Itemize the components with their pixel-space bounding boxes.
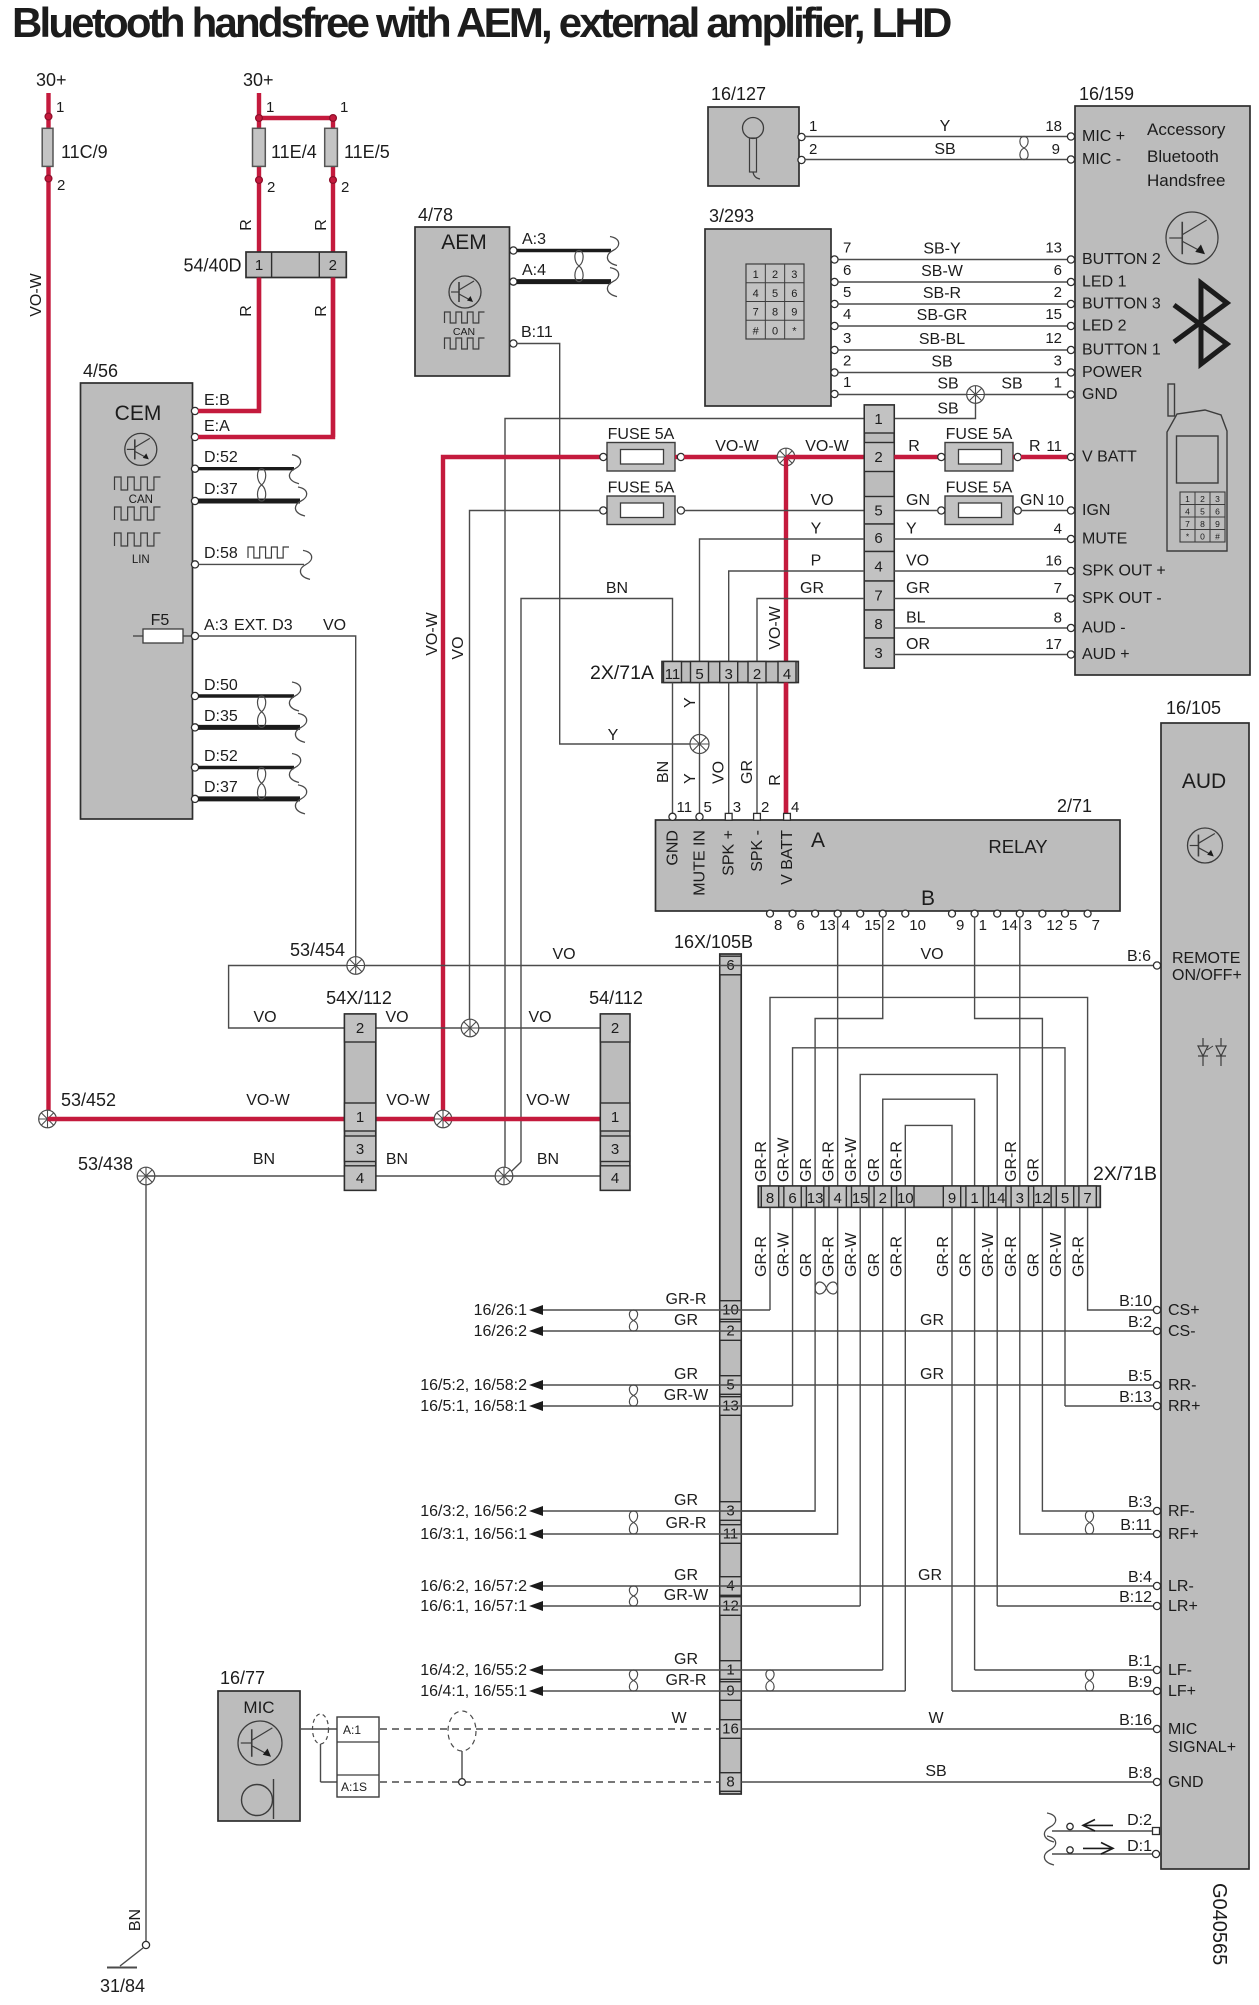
svg-text:4: 4 <box>833 1190 841 1207</box>
CAN symbol AEM <box>445 312 485 349</box>
svg-text:R: R <box>238 305 255 317</box>
wire GR 16/4 to 2X/71B 2 <box>420 1651 883 1679</box>
pin B9 of relay <box>949 910 965 934</box>
svg-text:FUSE 5A: FUSE 5A <box>946 480 1013 497</box>
svg-text:4: 4 <box>791 799 799 816</box>
svg-text:14: 14 <box>989 1190 1006 1207</box>
svg-text:5: 5 <box>1061 1190 1069 1207</box>
svg-text:16/127: 16/127 <box>711 84 766 104</box>
pin LED 2 of 16/159 <box>1067 318 1126 335</box>
wire LIN D:58 <box>198 547 312 579</box>
svg-text:16/4:1, 16/55:1: 16/4:1, 16/55:1 <box>420 1683 527 1700</box>
svg-text:30+: 30+ <box>243 70 274 90</box>
svg-text:GR: GR <box>674 1312 698 1329</box>
wire label GR-R below 2X/71B at 837.65 <box>821 1236 838 1277</box>
svg-text:B:11: B:11 <box>1120 1517 1152 1534</box>
svg-text:12: 12 <box>1034 1190 1051 1207</box>
svg-text:GN: GN <box>906 492 930 509</box>
wire GR 2X/71A 2 to relay <box>739 683 757 814</box>
pin D:52 of CEM <box>191 449 237 472</box>
wire B:1 right segment <box>975 1669 1153 1671</box>
svg-text:8: 8 <box>766 1190 774 1207</box>
wire red VO-W 54X/112 to junction <box>376 1092 443 1119</box>
pin 2 of fuse 11E/5 <box>330 177 350 196</box>
svg-text:31/84: 31/84 <box>100 1976 145 1996</box>
svg-text:7: 7 <box>874 588 882 605</box>
pin B:11 of AEM <box>510 324 553 347</box>
svg-text:14: 14 <box>1001 917 1018 934</box>
wire jumper 2X/71B 15-14 LR+ <box>860 1074 997 1606</box>
svg-text:8: 8 <box>1054 610 1062 627</box>
pin SPK OUT + of 16/159 <box>1067 563 1165 580</box>
pin A:4 of AEM <box>510 262 546 285</box>
wire B:9 right segment <box>952 1690 1153 1692</box>
wire label GR-R below 2X/71B at 905.3 <box>888 1236 905 1277</box>
svg-text:D:35: D:35 <box>204 708 238 725</box>
svg-text:16/5:1, 16/58:1: 16/5:1, 16/58:1 <box>420 1398 527 1415</box>
svg-text:GN: GN <box>1020 492 1044 509</box>
pin 2 of 3/293 <box>831 353 851 377</box>
svg-text:E:B: E:B <box>204 392 230 409</box>
svg-text:0: 0 <box>1200 532 1205 542</box>
pin 1 of fuse 11C/9 <box>45 99 64 120</box>
svg-text:5: 5 <box>704 799 712 816</box>
wire label GR-W above 2X/71B at 860.2 <box>843 1137 860 1182</box>
wire red VO-W junction to 54/112 pin1 <box>443 1092 600 1119</box>
svg-text:GR-R: GR-R <box>1003 1236 1020 1277</box>
svg-text:VO-W: VO-W <box>767 605 784 649</box>
LIN symbol CEM <box>115 533 161 566</box>
svg-text:GR: GR <box>1025 1158 1042 1182</box>
wire red rail to 11E/4 <box>257 93 261 411</box>
svg-text:13: 13 <box>819 917 836 934</box>
pin BUTTON 3 of 16/159 <box>1067 296 1161 313</box>
svg-text:RR+: RR+ <box>1168 1398 1200 1415</box>
pin B:6 of AUD REMOTE <box>1127 948 1242 984</box>
svg-text:GR: GR <box>739 760 756 784</box>
transistor symbol AUD <box>1188 828 1223 863</box>
wire SB-Y keypad pin 7 to 16/159 <box>838 240 1067 260</box>
svg-text:EXT. D3: EXT. D3 <box>234 617 293 634</box>
wire SB-R keypad pin 5 to 16/159 <box>838 284 1067 304</box>
svg-text:GR: GR <box>798 1253 815 1277</box>
svg-text:8: 8 <box>774 917 782 934</box>
svg-text:P: P <box>811 553 822 570</box>
svg-text:GR: GR <box>866 1253 883 1277</box>
svg-text:SB-BL: SB-BL <box>919 331 965 348</box>
connector 2X/71B <box>758 1163 1157 1207</box>
svg-text:VO: VO <box>920 946 943 963</box>
wire GR-R 16/4:1 to 2X/71B 10 <box>420 1672 905 1700</box>
wire B:12 right segment <box>997 1605 1153 1607</box>
wire VO fuse to strip pin5 <box>684 492 864 511</box>
wire GN strip pin5 to fuse <box>894 492 938 511</box>
wire red E:B to 54/40D pin1 <box>198 278 259 412</box>
svg-text:BUTTON 2: BUTTON 2 <box>1082 251 1161 268</box>
svg-text:1: 1 <box>979 917 987 934</box>
svg-text:VO-W: VO-W <box>246 1092 290 1109</box>
svg-text:R: R <box>767 774 784 786</box>
wire label GR above 2X/71B at 815.1 <box>798 1158 815 1182</box>
wire label GR below 2X/71B at 815.1 <box>798 1253 815 1277</box>
wire Y mic+ <box>805 118 1067 137</box>
svg-text:ON/OFF+: ON/OFF+ <box>1172 967 1242 984</box>
wire label GR-R below 2X/71B at 952 <box>935 1236 952 1277</box>
fuse 11C/9 <box>42 128 108 166</box>
wire SB-W keypad pin 6 to 16/159 <box>838 262 1067 282</box>
svg-text:Y: Y <box>682 773 699 784</box>
svg-text:11: 11 <box>1046 438 1062 455</box>
svg-text:LF+: LF+ <box>1168 1683 1196 1700</box>
svg-text:VO-W: VO-W <box>526 1092 570 1109</box>
svg-text:GND: GND <box>1082 386 1118 403</box>
svg-text:D:58: D:58 <box>204 545 238 562</box>
svg-text:SPK OUT +: SPK OUT + <box>1082 563 1166 580</box>
svg-text:GR: GR <box>674 1651 698 1668</box>
wire label GR above 2X/71B at 1042.4 <box>1025 1158 1042 1182</box>
svg-text:3: 3 <box>356 1141 364 1158</box>
wire CAN D:52 twisted <box>198 455 301 484</box>
svg-text:6: 6 <box>843 262 851 279</box>
svg-text:GR-R: GR-R <box>666 1515 707 1532</box>
wire SB to AUD B:8 <box>741 1763 1153 1782</box>
relay 2/71 box <box>656 796 1121 911</box>
wire BL strip pin8 to AUD- <box>894 610 1067 629</box>
svg-text:MIC -: MIC - <box>1082 151 1121 168</box>
pin B5 of relay <box>1062 910 1078 934</box>
pin B:9 LF+ of AUD <box>1128 1674 1196 1700</box>
pin B13 of relay <box>812 910 836 934</box>
svg-text:9: 9 <box>791 307 797 319</box>
svg-text:AEM: AEM <box>441 231 487 254</box>
pin AUD - of 16/159 <box>1067 620 1125 637</box>
module 16/159 Accessory Bluetooth Handsfree box <box>1075 84 1250 675</box>
svg-text:53/452: 53/452 <box>61 1090 116 1110</box>
svg-text:B:12: B:12 <box>1119 1589 1152 1606</box>
svg-text:VO: VO <box>323 617 346 634</box>
svg-text:B:5: B:5 <box>1128 1368 1152 1385</box>
svg-text:16/6:2, 16/57:2: 16/6:2, 16/57:2 <box>420 1578 527 1595</box>
svg-text:B:11: B:11 <box>521 324 553 341</box>
wire label GR above 2X/71B at 882.75 <box>866 1158 883 1182</box>
wire red VO-W drop to relay V BATT <box>767 457 786 817</box>
svg-text:12: 12 <box>1045 330 1062 347</box>
wire SB-GR keypad pin 4 to 16/159 <box>838 306 1067 326</box>
svg-text:GR-W: GR-W <box>776 1232 793 1277</box>
svg-text:8: 8 <box>726 1774 734 1791</box>
svg-text:MUTE: MUTE <box>1082 531 1127 548</box>
svg-text:A:3: A:3 <box>204 617 228 634</box>
wire jumper 2X/71B 8-7 CS+ <box>770 997 1153 1310</box>
wire CAN A:3 twisted <box>517 237 619 266</box>
svg-text:A:3: A:3 <box>522 231 546 248</box>
wire GR 16/3 to 2X/71B 13 <box>420 1492 815 1520</box>
wire relay B3 to 2X/71B 3 to AUD B:11 <box>1020 917 1155 1534</box>
svg-text:R: R <box>313 305 330 317</box>
svg-text:SB-GR: SB-GR <box>917 307 968 324</box>
svg-text:11: 11 <box>665 666 681 683</box>
svg-text:AUD +: AUD + <box>1082 646 1130 663</box>
wire P strip pin4 left segment <box>729 553 865 662</box>
pin 6 of 3/293 <box>831 262 851 286</box>
twisted pair symbol RF at AUD <box>1085 1511 1093 1534</box>
svg-text:LF-: LF- <box>1168 1662 1192 1679</box>
svg-text:GR: GR <box>1025 1253 1042 1277</box>
transistor symbol AEM <box>449 276 481 308</box>
wire BN splice to 54/112 pin4 <box>504 1151 600 1176</box>
svg-text:LR+: LR+ <box>1168 1598 1198 1615</box>
wire red bridge to 11E/5 <box>259 116 333 437</box>
svg-text:2: 2 <box>761 799 769 816</box>
svg-text:GR-W: GR-W <box>980 1232 997 1277</box>
pin B2 of relay <box>879 910 895 934</box>
wire label GR-W above 2X/71B at 792.55 <box>776 1137 793 1182</box>
svg-text:GR-W: GR-W <box>776 1137 793 1182</box>
pin B10 of relay <box>902 910 926 934</box>
svg-text:GR-R: GR-R <box>821 1141 838 1182</box>
phone icon 16/159 <box>1167 384 1227 551</box>
wire VO 53/454 to AUD B:6 <box>356 946 1153 966</box>
wire SB keypad pin 1 to GND 16/159 <box>838 375 1067 395</box>
pin B3 of relay <box>1016 910 1032 934</box>
wire OR strip pin3 to AUD+ <box>894 636 1067 655</box>
svg-text:3: 3 <box>874 645 882 662</box>
wire SB strip pin1 left to BN splice <box>505 419 864 1170</box>
wire red R fuse to V BATT pin <box>1021 438 1067 457</box>
svg-text:6: 6 <box>791 288 797 300</box>
pin B:4 LR- of AUD <box>1128 1569 1194 1595</box>
twisted pair symbol D:52b/D:37b <box>257 768 265 799</box>
svg-text:LR-: LR- <box>1168 1578 1194 1595</box>
pin name V BATT relay <box>779 830 796 885</box>
svg-text:1: 1 <box>1054 375 1062 392</box>
svg-text:BN: BN <box>386 1151 408 1168</box>
shield ellipse at mic <box>313 1714 338 1782</box>
svg-text:B:10: B:10 <box>1119 1293 1152 1310</box>
wire red R strip to fuse <box>894 438 941 457</box>
pin A11 of relay <box>669 799 692 820</box>
wire VO 54X/112 pin2 to 54/112 pin2 <box>253 1009 600 1028</box>
junction VO at riser <box>461 1019 479 1037</box>
svg-text:2: 2 <box>753 666 761 683</box>
svg-text:3: 3 <box>843 330 851 347</box>
wire B:11 of AEM to Y splice <box>517 344 695 745</box>
wire VO-W left rail (red) <box>46 93 50 1119</box>
wire GR-W 16/6:1 to 2X/71B 15 <box>420 1587 860 1615</box>
wire D:1 arrow <box>1044 1836 1152 1865</box>
svg-text:Y: Y <box>682 697 699 708</box>
svg-text:54/112: 54/112 <box>589 988 643 1008</box>
svg-text:CAN: CAN <box>453 326 475 338</box>
svg-text:IGN: IGN <box>1082 502 1110 519</box>
svg-text:B:4: B:4 <box>1128 1569 1152 1586</box>
svg-text:#: # <box>753 325 760 337</box>
svg-text:Handsfree: Handsfree <box>1147 171 1225 190</box>
svg-text:1: 1 <box>1185 494 1190 504</box>
svg-text:11E/4: 11E/4 <box>271 142 317 162</box>
pin 1 of fuse 11E/5 <box>330 99 349 121</box>
svg-text:RF-: RF- <box>1168 1503 1195 1520</box>
svg-text:7: 7 <box>1092 917 1100 934</box>
module 16/105 AUD box <box>1161 698 1249 1869</box>
wire GR strip pin7 left segment <box>757 580 864 662</box>
svg-text:3/293: 3/293 <box>709 206 754 226</box>
wire SB mic- <box>805 141 1067 160</box>
svg-text:3: 3 <box>1054 353 1062 370</box>
svg-text:GR: GR <box>800 580 824 597</box>
svg-text:G040565: G040565 <box>1208 1883 1230 1965</box>
svg-text:GR: GR <box>920 1366 944 1383</box>
svg-text:SPK -: SPK - <box>749 830 766 872</box>
pin A:3 of CEM <box>191 617 292 640</box>
svg-text:5: 5 <box>695 666 703 683</box>
svg-text:1: 1 <box>266 99 274 116</box>
connector 2X/71A <box>590 662 798 685</box>
svg-text:VO: VO <box>711 761 728 784</box>
svg-text:VO-W: VO-W <box>28 272 45 316</box>
svg-text:4: 4 <box>783 666 791 683</box>
wire B:13 right segment <box>1065 1405 1153 1407</box>
wire BN 2X/71A pin11 loop <box>521 580 673 1162</box>
svg-text:GR-R: GR-R <box>666 1672 707 1689</box>
svg-text:VO: VO <box>253 1009 276 1026</box>
pin label MIC SIGNAL+ extra <box>1168 1739 1236 1756</box>
transistor symbol 16/159 <box>1166 212 1218 264</box>
svg-text:16/105: 16/105 <box>1166 698 1221 718</box>
pin AUD + of 16/159 <box>1067 646 1129 663</box>
svg-text:1: 1 <box>611 1109 619 1126</box>
node 30+ right rail label <box>243 70 274 90</box>
svg-text:OR: OR <box>906 636 930 653</box>
drawing number G040565 <box>1208 1883 1230 1965</box>
wire label R below pin1 54/40D <box>238 305 255 317</box>
pin B:1 LF- of AUD <box>1128 1653 1192 1679</box>
svg-text:1: 1 <box>255 257 263 274</box>
svg-text:0: 0 <box>772 325 778 337</box>
twisted pair symbol 16/6 <box>629 1586 637 1606</box>
svg-text:SIGNAL+: SIGNAL+ <box>1168 1739 1236 1756</box>
fuse F5 in CEM <box>133 612 193 643</box>
svg-text:16/3:2, 16/56:2: 16/3:2, 16/56:2 <box>420 1503 527 1520</box>
junction BN splice <box>495 1167 513 1185</box>
svg-text:B:13: B:13 <box>1119 1389 1152 1406</box>
wire CAN D:50 twisted <box>198 682 301 711</box>
svg-text:3: 3 <box>725 666 733 683</box>
svg-text:SB: SB <box>925 1763 946 1780</box>
svg-text:10: 10 <box>897 1190 914 1207</box>
svg-text:2: 2 <box>809 141 817 158</box>
wire label GR-R below 2X/71B at 770 <box>753 1236 770 1277</box>
svg-text:3: 3 <box>1215 494 1220 504</box>
wire Y strip pin6 left segment <box>700 521 865 662</box>
pin 2 of fuse 11C/9 <box>45 175 65 194</box>
svg-text:B:8: B:8 <box>1128 1765 1152 1782</box>
svg-text:REMOTE: REMOTE <box>1172 950 1240 967</box>
wire red E:A to 54/40D pin2 <box>198 278 333 438</box>
svg-text:Bluetooth handsfree with AEM,: Bluetooth handsfree with AEM, external a… <box>12 0 951 46</box>
pin E:B of CEM <box>191 392 229 415</box>
junction on SB GND wire <box>967 386 985 404</box>
svg-text:SB: SB <box>937 376 958 393</box>
svg-text:9: 9 <box>948 1190 956 1207</box>
pin B:2 CS- of AUD <box>1128 1314 1196 1340</box>
svg-text:FUSE 5A: FUSE 5A <box>608 480 675 497</box>
svg-text:D:1: D:1 <box>1127 1838 1152 1855</box>
svg-text:7: 7 <box>1083 1190 1091 1207</box>
svg-text:B:1: B:1 <box>1128 1653 1152 1670</box>
wire label GR below 2X/71B at 974.6 <box>958 1253 975 1277</box>
wire SB keypad pin 2 to 16/159 <box>838 353 1067 373</box>
svg-text:GR-W: GR-W <box>1048 1232 1065 1277</box>
svg-text:7: 7 <box>1054 580 1062 597</box>
svg-text:VO-W: VO-W <box>805 438 849 455</box>
wire label GR-R above 2X/71B at 837.65 <box>821 1141 838 1182</box>
fuse 11E/4 <box>253 128 317 166</box>
wire red VO-W fuse to junction <box>684 438 786 457</box>
fuse FUSE 5A lower-right <box>938 480 1022 525</box>
pin D:58 of CEM <box>191 545 237 568</box>
svg-text:10: 10 <box>1047 492 1064 509</box>
pin D:2 of AUD <box>1127 1812 1159 1835</box>
svg-text:5: 5 <box>1200 507 1205 517</box>
svg-text:5: 5 <box>1069 917 1077 934</box>
pin B7 of relay <box>1084 910 1100 934</box>
pin B:16 MIC of AUD <box>1119 1712 1197 1738</box>
svg-text:RR-: RR- <box>1168 1377 1196 1394</box>
wire label VO-W left rail <box>28 272 45 316</box>
svg-text:*: * <box>792 325 797 337</box>
pin BUTTON 1 of 16/159 <box>1067 342 1161 359</box>
module 4/78 AEM box <box>415 205 510 376</box>
svg-text:GR: GR <box>674 1492 698 1509</box>
svg-text:BN: BN <box>537 1151 559 1168</box>
svg-text:SB-W: SB-W <box>921 263 964 280</box>
svg-text:13: 13 <box>807 1190 824 1207</box>
svg-text:A:4: A:4 <box>522 262 546 279</box>
svg-text:B:9: B:9 <box>1128 1674 1152 1691</box>
wire mic to A:1 <box>300 1728 337 1730</box>
svg-text:12: 12 <box>1046 917 1063 934</box>
pin A3 of relay <box>725 799 741 820</box>
svg-text:2X/71A: 2X/71A <box>590 662 654 684</box>
pin A2 of relay <box>754 799 770 820</box>
svg-text:16: 16 <box>1045 553 1062 570</box>
wire CAN D:52b twisted <box>198 754 301 783</box>
svg-text:5: 5 <box>772 288 778 300</box>
svg-text:54X/112: 54X/112 <box>326 988 392 1008</box>
pin B14 of relay <box>994 910 1018 934</box>
svg-text:1: 1 <box>340 99 348 116</box>
svg-text:SB: SB <box>931 354 952 371</box>
svg-text:V BATT: V BATT <box>1082 449 1137 466</box>
svg-text:54/40D: 54/40D <box>183 256 241 276</box>
transistor symbol CEM <box>125 433 157 465</box>
pin B1 of relay <box>971 910 987 934</box>
wire GR-R 16/3:1 to 2X/71B 4 <box>420 1515 837 1543</box>
svg-text:GR-R: GR-R <box>753 1141 770 1182</box>
pin B:3 RF- of AUD <box>1128 1494 1195 1520</box>
svg-text:2: 2 <box>772 269 778 281</box>
svg-text:Bluetooth: Bluetooth <box>1147 147 1219 166</box>
svg-text:53/438: 53/438 <box>78 1154 133 1174</box>
svg-text:11E/5: 11E/5 <box>344 142 390 162</box>
svg-text:BUTTON 1: BUTTON 1 <box>1082 342 1161 359</box>
junction 53/454 <box>290 940 365 974</box>
svg-text:D:37: D:37 <box>204 481 238 498</box>
wire red VO-W 53/452 to 54X/112 pin1 <box>48 1092 345 1119</box>
wire VO 2X/71A 3 to relay <box>711 683 729 814</box>
svg-text:MUTE IN: MUTE IN <box>692 830 709 896</box>
